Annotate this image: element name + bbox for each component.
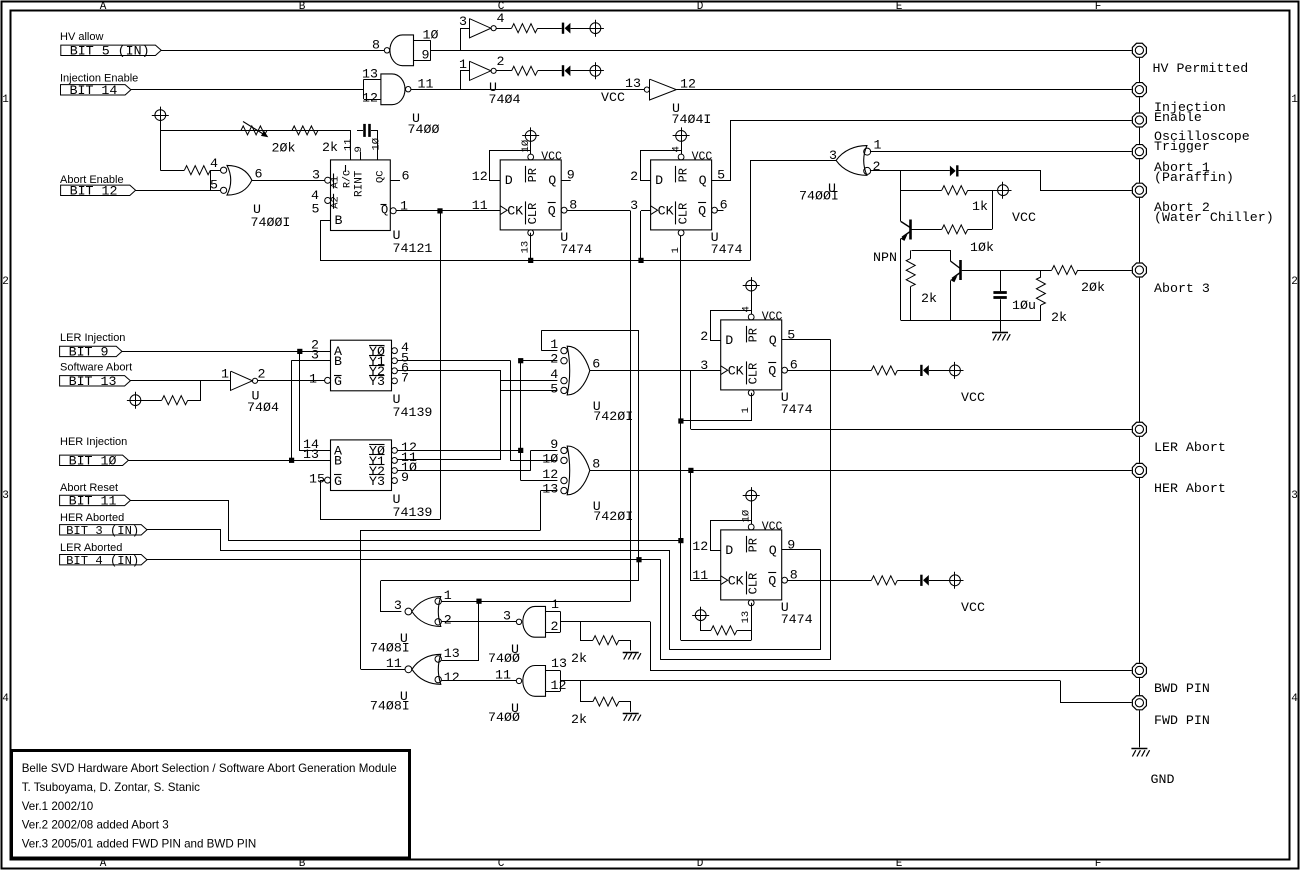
- resistor R 1k: [942, 186, 968, 195]
- pin labels U7474-A: [472, 140, 577, 254]
- wire LER drop: [690, 371, 692, 430]
- wire FF2 Q5 to Oscilloscope Trigger: [711, 121, 1132, 181]
- svg-text:BIT 14: BIT 14: [70, 83, 118, 98]
- wire bus conn1-conn2: [1139, 58, 1141, 82]
- label HER Abort: [1154, 481, 1226, 496]
- svg-text:2: 2: [550, 352, 558, 367]
- pin labels U7474-B: [630, 146, 727, 253]
- wire diode to point 3: [929, 370, 950, 372]
- svg-text:Q: Q: [698, 203, 706, 218]
- wire PR lead U7474-B: [681, 141, 683, 154]
- svg-text:2Øk: 2Øk: [272, 141, 296, 156]
- svg-text:2: 2: [444, 612, 452, 627]
- wire 2k C to gnd: [619, 641, 631, 651]
- label U 7400I (abort gate): [799, 181, 839, 204]
- svg-text:742ØI: 742ØI: [593, 409, 633, 424]
- wire 74121 pin10 lead: [377, 130, 379, 160]
- svg-text:B: B: [334, 354, 342, 369]
- wire CLR net vertical: [680, 236, 682, 640]
- wire Q8 long vertical: [630, 211, 632, 602]
- wire inv1 out to resistor: [496, 28, 511, 30]
- svg-text:LER Injection: LER Injection: [60, 332, 125, 344]
- wire bus BWD-FWD: [1139, 678, 1141, 695]
- inverter U7404 pins 1-2: [459, 54, 505, 80]
- label HER Aborted: [60, 512, 124, 524]
- NAND4 gate U7420I-A: [561, 346, 590, 395]
- svg-text:CK: CK: [658, 203, 674, 218]
- svg-text:74Ø4: 74Ø4: [489, 92, 521, 107]
- label U 7404I: [672, 101, 712, 127]
- connector Abort 2: [1132, 183, 1146, 197]
- wire vcc point down: [160, 121, 162, 171]
- wire CLR net link: [681, 640, 751, 642]
- svg-text:VCC: VCC: [1012, 210, 1036, 225]
- svg-text:74ØØI: 74ØØI: [799, 189, 839, 204]
- svg-text:3: 3: [2, 490, 9, 502]
- wire D-PR hook U7474-C: [711, 311, 752, 341]
- net flag BIT 10: [60, 454, 129, 469]
- connector HV Permitted: [1132, 43, 1146, 57]
- wire Q9 vertical: [820, 550, 822, 650]
- svg-text:D: D: [725, 543, 733, 558]
- junction BIT4 node: [636, 557, 641, 562]
- svg-text:74ØØ: 74ØØ: [488, 651, 520, 666]
- AND gate (inverted) U7408I-A: [405, 597, 441, 627]
- label LER Injection: [60, 332, 125, 344]
- wire R20k to Abort3: [1078, 270, 1132, 272]
- testpoint VCC transistor: [995, 182, 1012, 199]
- label HV Permitted: [1153, 61, 1249, 76]
- FF2 Q6 stub: [717, 210, 724, 212]
- NAND4 gate U7420I-B: [561, 446, 590, 495]
- svg-text:Q: Q: [548, 203, 556, 218]
- svg-text:B: B: [299, 858, 306, 870]
- svg-text:12: 12: [692, 539, 708, 554]
- resistor R 2k pulldown C: [593, 636, 619, 645]
- label Abort 2 (Water Chiller): [1154, 200, 1274, 225]
- pin labels U7400-C: [503, 597, 559, 634]
- label VCC (indicator 3): [961, 390, 985, 405]
- NAND gate U7400-D: [516, 666, 560, 697]
- wire BWD net: [651, 622, 1132, 671]
- wire gateC tie out: [560, 621, 650, 623]
- label U 7420I U7420I-A: [593, 399, 633, 424]
- svg-text:1: 1: [874, 138, 882, 153]
- svg-text:4: 4: [1291, 693, 1298, 705]
- label NPN: [873, 250, 897, 265]
- wire Q1 emitter lead: [900, 239, 902, 321]
- wire 74139#1 B stub: [292, 360, 331, 362]
- svg-text:C: C: [498, 858, 505, 870]
- wire hook to 74139#2 G: [321, 481, 441, 520]
- wire FWD net b: [1061, 681, 1132, 703]
- decoder U74139-A: [325, 340, 398, 391]
- svg-text:PR: PR: [526, 168, 540, 182]
- wire inverter to G1: [258, 380, 325, 382]
- inverter U7404I pins 13-12: [625, 76, 696, 100]
- wire FF4 Q8 to resistor: [787, 580, 872, 582]
- wire Q1 base branch to Q2 collector: [912, 251, 951, 262]
- trimmer resistor 20k: [241, 122, 268, 138]
- svg-text:E: E: [896, 858, 903, 870]
- transistor Q2 NPN: [950, 260, 960, 282]
- wire resistor to pin4: [210, 170, 220, 172]
- label U 74121: [393, 228, 433, 256]
- svg-text:Ver.1 2002/10: Ver.1 2002/10: [22, 800, 94, 813]
- wire Q1 base to R10k: [912, 229, 942, 231]
- label GND: [1151, 772, 1175, 787]
- wire R2k2 top lead: [1040, 270, 1042, 277]
- svg-text:QC: QC: [375, 170, 387, 183]
- wire pin9 row: [531, 450, 558, 452]
- resistor R 2k base: [906, 258, 915, 286]
- pin labels U7474-C: [700, 306, 797, 413]
- svg-text:2: 2: [630, 169, 638, 184]
- svg-text:1Ø: 1Ø: [542, 451, 558, 466]
- label 1k: [972, 199, 988, 214]
- resistor R indicator 1: [512, 24, 538, 33]
- label BWD PIN: [1154, 681, 1210, 696]
- svg-text:5: 5: [210, 178, 218, 193]
- pin labels U74139-B: [303, 437, 417, 486]
- svg-text:742ØI: 742ØI: [593, 509, 633, 524]
- svg-text:9: 9: [422, 48, 430, 63]
- wire vcc to resistor pin4: [160, 170, 184, 172]
- svg-text:2: 2: [497, 54, 505, 69]
- wire resistor to diode 3: [898, 370, 921, 372]
- wire FF3 Q5 out: [782, 339, 831, 341]
- wire BIT13 to inverter: [130, 380, 230, 382]
- svg-text:Q: Q: [769, 543, 777, 558]
- svg-text:HER Injection: HER Injection: [60, 436, 127, 448]
- connector Oscilloscope Trigger: [1132, 113, 1146, 127]
- label LER Aborted: [60, 542, 122, 554]
- svg-text:Y3: Y3: [369, 474, 385, 489]
- wire FWD net a: [560, 680, 1060, 682]
- svg-text:1: 1: [2, 94, 9, 106]
- wire BIT12 to gate pin5: [136, 190, 221, 192]
- wire FF4 CLR lead: [751, 603, 753, 640]
- wire HER Abort net: [590, 470, 1132, 472]
- wire 74121 B stub: [320, 220, 330, 222]
- svg-text:13: 13: [625, 76, 641, 91]
- svg-text:Ver.2 2002/08 added Abort 3: Ver.2 2002/08 added Abort 3: [22, 819, 169, 832]
- svg-text:7474: 7474: [711, 242, 743, 257]
- svg-text:T. Tsuboyama, D. Zontar, S. St: T. Tsuboyama, D. Zontar, S. Stanic: [22, 781, 200, 794]
- pin labels U7400-D: [495, 656, 567, 693]
- svg-text:Abort Reset: Abort Reset: [60, 482, 118, 494]
- svg-text:2: 2: [873, 159, 881, 174]
- svg-text:74Ø8I: 74Ø8I: [370, 698, 410, 713]
- svg-text:B: B: [334, 454, 342, 469]
- FF1 Q pin9 stub: [561, 180, 571, 182]
- D flip-flop U7474-B: [651, 150, 718, 235]
- svg-text:Enable: Enable: [1154, 110, 1202, 125]
- grid labels top: [100, 1, 1102, 13]
- svg-text:Software Abort: Software Abort: [60, 362, 132, 374]
- wire corner fix: [629, 601, 630, 603]
- svg-text:2k: 2k: [571, 651, 587, 666]
- svg-text:VCC: VCC: [692, 150, 713, 163]
- svg-text:VCC: VCC: [961, 600, 985, 615]
- wire Q5 vertical: [830, 340, 832, 660]
- net flag BIT 11: [60, 494, 131, 509]
- testpoint VCC U7474-B: [673, 127, 690, 144]
- wire point to pullup: [141, 400, 162, 402]
- label U 74139 U74139-A: [393, 392, 433, 420]
- svg-text:FWD PIN: FWD PIN: [1154, 713, 1210, 728]
- label U 7400 U7400-D: [488, 701, 520, 725]
- svg-text:CLR: CLR: [747, 573, 761, 595]
- svg-text:BIT 1Ø: BIT 1Ø: [69, 454, 117, 469]
- wire transistor ground rail: [901, 320, 1041, 322]
- label U 7474 U7474-B: [711, 230, 743, 257]
- wire FF2 CK drop: [640, 211, 642, 261]
- label Injection Enable (output): [1154, 100, 1226, 125]
- connector FWD PIN: [1132, 696, 1146, 710]
- svg-text:D: D: [655, 173, 663, 188]
- svg-text:Q: Q: [699, 173, 707, 188]
- testpoint VCC trimmer: [152, 107, 169, 124]
- svg-text:Q: Q: [768, 363, 776, 378]
- wire R1k to R10k link: [992, 190, 994, 229]
- wire Abort2 net a: [870, 170, 950, 172]
- svg-text:RINT: RINT: [354, 170, 366, 197]
- wire BIT3 drop: [669, 550, 671, 650]
- junction CLR net abort reset tap: [678, 538, 683, 543]
- wire resistor to diode 4: [898, 580, 921, 582]
- resistor R indicator 3: [871, 366, 897, 375]
- svg-text:Y3: Y3: [369, 374, 385, 389]
- testpoint VCC U7474-C: [743, 277, 760, 294]
- label 2k (base): [921, 291, 937, 306]
- pin labels U74139-A: [309, 338, 409, 387]
- svg-text:9: 9: [401, 470, 409, 485]
- NAND gate U7400-C: [516, 606, 560, 637]
- wire pin2 row: [521, 360, 558, 362]
- wire Q1 vertical to G2 hook: [440, 211, 442, 520]
- svg-text:1: 1: [1291, 94, 1298, 106]
- resistor R pullup BIT13: [162, 396, 188, 405]
- wire rail to ground: [1000, 320, 1002, 331]
- wire pin1 row: [541, 350, 557, 352]
- wire pin12 row: [521, 480, 558, 482]
- svg-text:R/C: R/C: [342, 170, 354, 188]
- svg-text:BWD PIN: BWD PIN: [1154, 681, 1210, 696]
- svg-text:74139: 74139: [393, 505, 433, 520]
- svg-text:13: 13: [551, 656, 567, 671]
- svg-text:13: 13: [362, 67, 378, 82]
- wire gateD out to gateB pin12: [442, 680, 517, 682]
- wire BIT5 to U7400 pin8: [161, 50, 384, 52]
- wire R2k top lead: [910, 250, 912, 258]
- svg-text:6: 6: [402, 169, 410, 184]
- svg-text:Belle SVD Hardware Abort Selec: Belle SVD Hardware Abort Selection / Sof…: [22, 762, 397, 775]
- net flag BIT 4 (IN): [60, 554, 147, 568]
- svg-text:Q: Q: [769, 333, 777, 348]
- wire pin13 drop: [540, 491, 542, 530]
- svg-text:HER Abort: HER Abort: [1154, 481, 1226, 496]
- svg-text:1Øk: 1Øk: [970, 240, 994, 255]
- label 2k (gate D): [571, 712, 587, 727]
- svg-text:B: B: [335, 213, 343, 228]
- wire Y2#2 to tie: [397, 470, 530, 472]
- wire BIT10 to 74139#2 B: [128, 460, 330, 462]
- svg-text:7474: 7474: [560, 242, 592, 257]
- svg-text:15: 15: [309, 471, 325, 486]
- svg-text:12: 12: [472, 169, 488, 184]
- svg-text:13: 13: [520, 241, 532, 254]
- label U 7408I U7408I-B: [370, 689, 410, 714]
- svg-text:D: D: [505, 173, 513, 188]
- svg-text:D: D: [697, 1, 704, 13]
- wire pin13 row: [541, 490, 558, 492]
- wire Y2#1 to 7420#1 pin4: [397, 371, 557, 381]
- diode D abort2: [950, 165, 959, 176]
- wire stub to U7404 pin3: [461, 29, 470, 51]
- wire bus conn4-conn5: [1139, 159, 1141, 182]
- wire FF4 Q9 out: [782, 549, 821, 551]
- svg-text:CK: CK: [728, 363, 744, 378]
- wire PR lead U7474-D: [751, 501, 753, 524]
- wire HER drop to FF4 CK: [691, 470, 721, 580]
- wire bus conn6-LER: [1139, 278, 1141, 422]
- wire BIT4 net a: [147, 559, 661, 561]
- svg-text:A2: A2: [330, 196, 342, 209]
- wire D-PR hook U7474-A: [490, 151, 531, 181]
- ground (2k C): [623, 653, 641, 660]
- wire Q2 emitter lead: [950, 281, 952, 321]
- wire resistor to diode 1: [538, 28, 562, 30]
- label Injection Enable (input): [60, 73, 138, 85]
- label Abort 1 (Paraffin): [1154, 160, 1234, 185]
- svg-text:HV Permitted: HV Permitted: [1153, 61, 1249, 76]
- label U 7474 U7474-A: [560, 230, 592, 257]
- svg-text:B: B: [299, 1, 306, 13]
- svg-text:BIT 12: BIT 12: [70, 184, 118, 199]
- testpoint indicator 1: [587, 20, 604, 37]
- svg-text:3: 3: [312, 168, 320, 183]
- capacitor 10u: [993, 270, 1006, 320]
- svg-text:13: 13: [444, 646, 460, 661]
- wire D-PR hook U7474-B: [641, 151, 682, 181]
- wire FF3 Q6 to resistor: [787, 370, 872, 372]
- 74121 pin9 stub: [360, 152, 362, 160]
- diode D indicator 4: [920, 575, 929, 586]
- svg-text:11: 11: [472, 198, 488, 213]
- svg-text:1: 1: [740, 407, 752, 413]
- svg-text:2k: 2k: [322, 140, 338, 155]
- svg-text:1: 1: [221, 367, 229, 382]
- wire gateA out lead: [381, 581, 402, 612]
- wire LER Abort net: [691, 429, 1132, 431]
- svg-text:D: D: [725, 333, 733, 348]
- svg-text:74139: 74139: [393, 405, 433, 420]
- svg-text:CLR: CLR: [747, 363, 761, 385]
- resistor R indicator 4: [871, 576, 897, 585]
- svg-text:VCC: VCC: [601, 90, 625, 105]
- label 20k: [272, 141, 296, 156]
- wire pin1 hook h: [541, 330, 639, 332]
- svg-text:4: 4: [671, 146, 683, 152]
- svg-text:5: 5: [550, 381, 558, 396]
- wire inv2 out to resistor: [496, 70, 511, 72]
- connector LER Abort: [1132, 422, 1146, 436]
- wire Q1 collector lead: [900, 171, 902, 222]
- svg-text:11: 11: [386, 656, 402, 671]
- wire gateB pin13 row: [442, 660, 479, 662]
- svg-text:BIT 13: BIT 13: [69, 374, 117, 389]
- svg-text:8: 8: [372, 38, 380, 53]
- pin labels U7408I-A: [394, 588, 452, 627]
- pin labels 11 9 10 (rotated): [343, 138, 383, 153]
- label 20k (abort3): [1081, 280, 1105, 295]
- svg-text:13: 13: [303, 447, 319, 462]
- wire stub to U7404 pin1: [461, 71, 470, 90]
- wire Y1#1 to Va: [397, 360, 510, 362]
- wire FF2 CK stub: [641, 210, 651, 212]
- label Abort Reset: [60, 482, 118, 494]
- resistor R 2k pulldown D: [593, 697, 619, 706]
- svg-text:VCC: VCC: [762, 310, 783, 323]
- svg-text:(Water Chiller): (Water Chiller): [1154, 210, 1274, 225]
- svg-text:(Paraffin): (Paraffin): [1154, 170, 1234, 185]
- testpoint indicator 3: [947, 362, 964, 379]
- svg-text:F: F: [1095, 1, 1102, 13]
- svg-text:NPN: NPN: [873, 250, 897, 265]
- label U 7474 U7474-D: [781, 600, 813, 627]
- svg-text:9: 9: [787, 537, 795, 552]
- wire Q2 base row: [962, 270, 1052, 272]
- NAND gate U7400I pins 4,5,6 (DeMorgan): [210, 156, 263, 195]
- label 2k (timing): [322, 140, 338, 155]
- svg-text:6: 6: [592, 357, 600, 372]
- wire pullup to pin13: [737, 630, 751, 632]
- svg-text:BIT 3 (IN): BIT 3 (IN): [66, 524, 139, 538]
- wire pin1 to gateB pin13: [478, 601, 480, 660]
- AND gate (inverted) U7408I-B: [405, 654, 441, 684]
- wire resistor to diode 2: [538, 70, 562, 72]
- svg-text:12: 12: [542, 467, 558, 482]
- svg-text:A: A: [100, 858, 107, 870]
- svg-text:2k: 2k: [571, 712, 587, 727]
- wire point to pullup R: [701, 621, 712, 631]
- svg-text:4: 4: [2, 693, 9, 705]
- testpoint VCC U7474-A: [522, 127, 539, 144]
- wire diode to point 4: [929, 580, 950, 582]
- wire pin4-pin5 tie: [210, 170, 212, 190]
- svg-text:A1: A1: [330, 176, 342, 189]
- svg-text:1Ø: 1Ø: [741, 510, 753, 523]
- pin labels U7474-D: [692, 510, 797, 624]
- svg-text:Q: Q: [768, 573, 776, 588]
- wire Injection Enable net: [676, 89, 1131, 91]
- wire FF1 Q8 to vertical: [567, 210, 631, 212]
- grid labels right: [1291, 94, 1298, 705]
- junction Q1 node: [437, 208, 442, 213]
- svg-text:1: 1: [550, 337, 558, 352]
- wire RC row to 74121 pin11: [160, 130, 351, 132]
- wire Abort2 net b: [959, 171, 1132, 191]
- wire gateB out row: [361, 669, 405, 671]
- wire bus FWD-GND: [1139, 710, 1141, 747]
- wire 74121 Q1 to FF1 CK: [396, 210, 500, 212]
- svg-text:1: 1: [459, 57, 467, 72]
- svg-text:1k: 1k: [972, 199, 988, 214]
- transistor Q1 NPN: [900, 220, 910, 241]
- label 10k: [970, 240, 994, 255]
- wire 2k tap C: [581, 622, 593, 641]
